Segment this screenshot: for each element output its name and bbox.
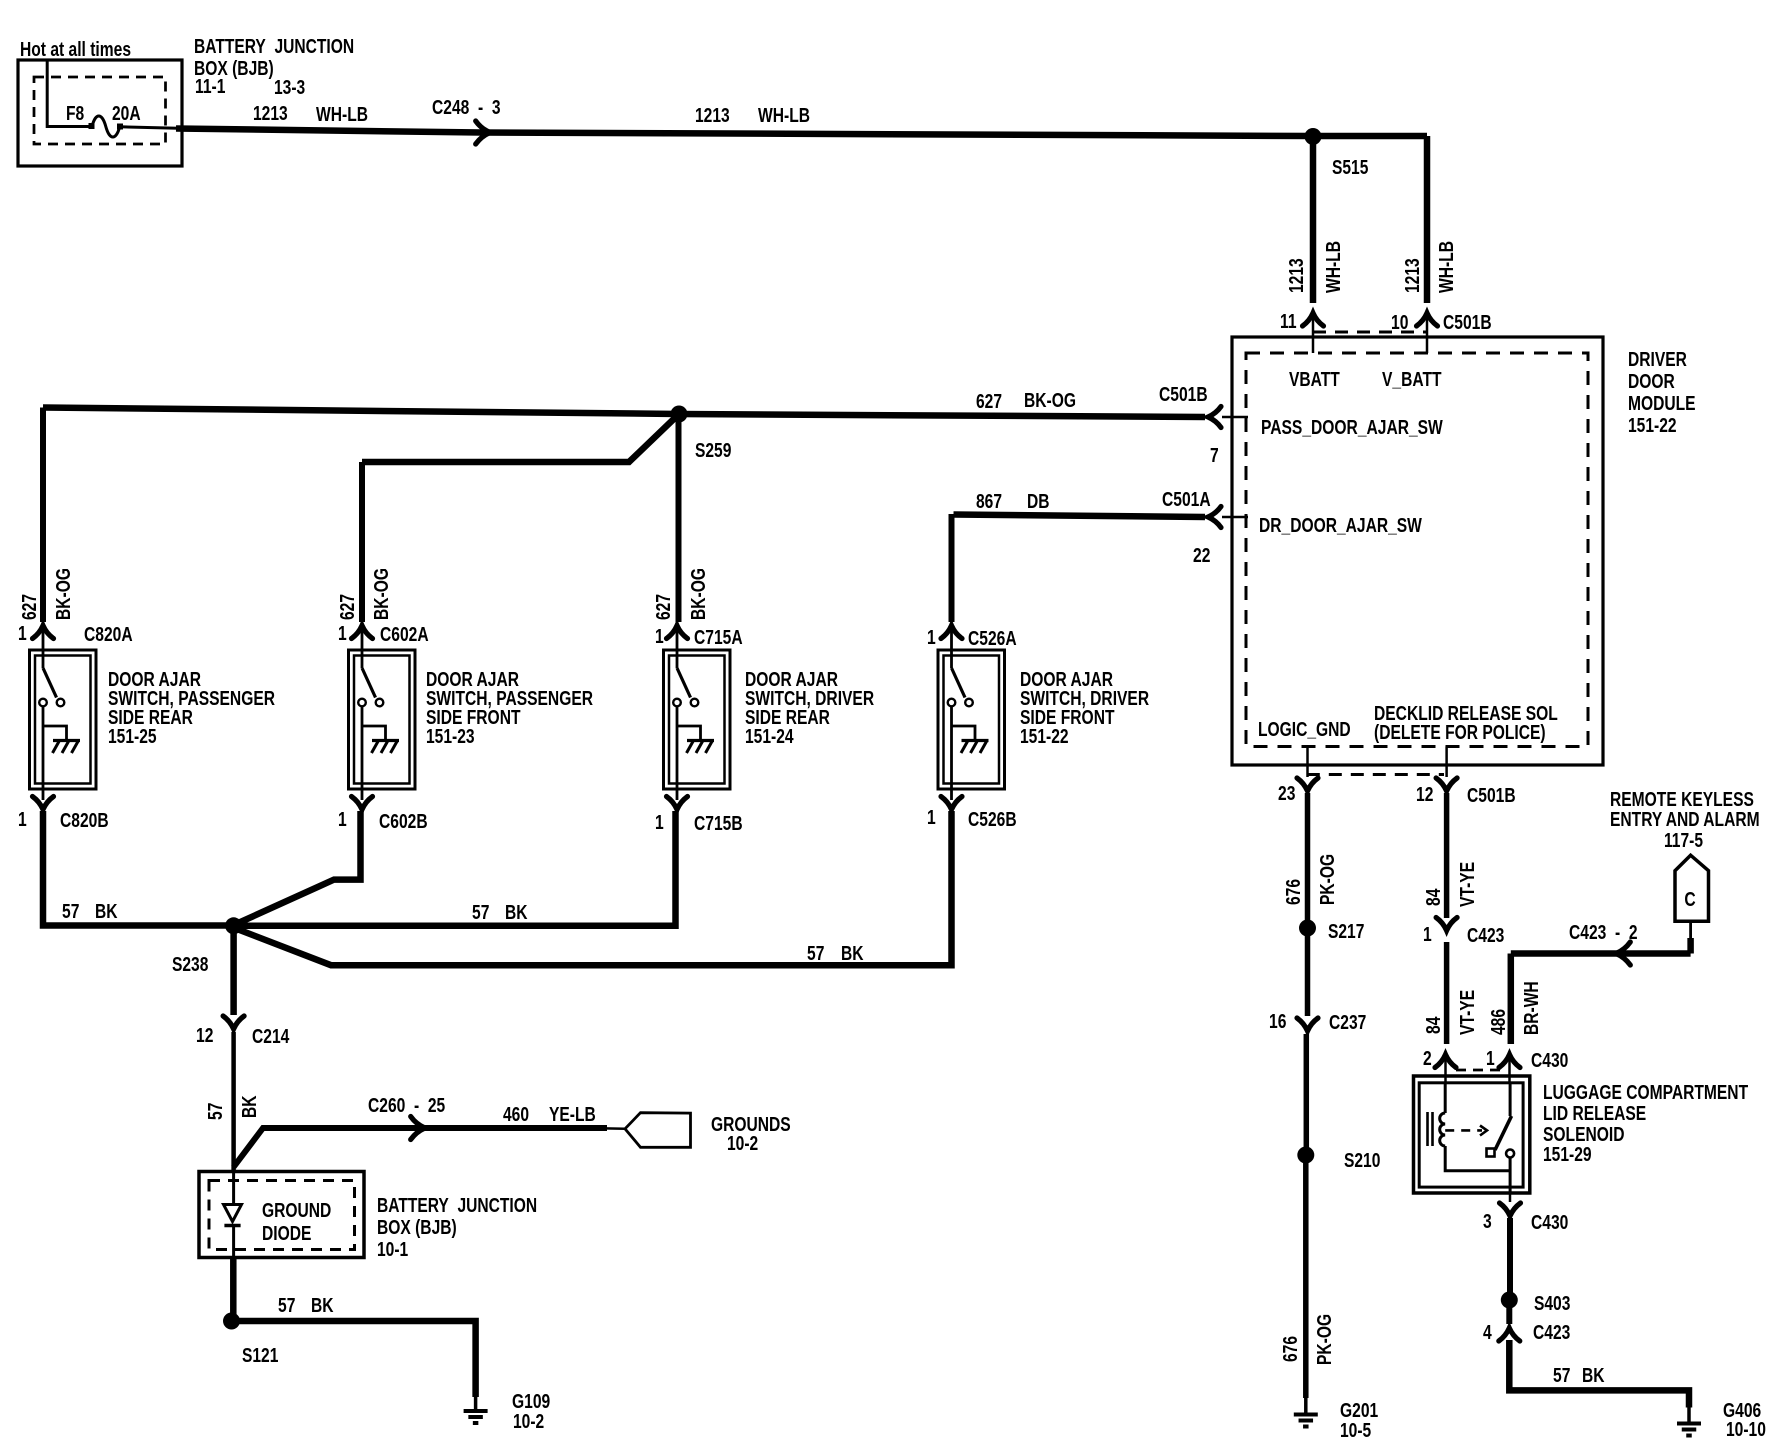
svg-text:BATTERY JUNCTION: BATTERY JUNCTION (377, 1195, 537, 1217)
svg-text:S217: S217 (1328, 921, 1364, 943)
svg-text:BK: BK (239, 1095, 261, 1118)
svg-text:57: 57 (1553, 1365, 1570, 1387)
svg-text:C602B: C602B (379, 811, 428, 833)
svg-text:84: 84 (1423, 888, 1445, 906)
svg-text:23: 23 (1278, 783, 1295, 805)
svg-text:C526B: C526B (968, 809, 1017, 831)
svg-text:BK: BK (841, 943, 864, 965)
svg-text:BK: BK (95, 901, 118, 923)
svg-text:1: 1 (927, 807, 936, 829)
svg-text:1: 1 (18, 809, 27, 831)
svg-text:VT-YE: VT-YE (1457, 862, 1479, 907)
svg-text:DR_DOOR_AJAR_SW: DR_DOOR_AJAR_SW (1259, 515, 1422, 537)
svg-text:C430: C430 (1531, 1212, 1568, 1234)
svg-text:BK: BK (311, 1295, 334, 1317)
svg-text:BK-OG: BK-OG (53, 568, 75, 620)
svg-text:LUGGAGE COMPARTMENT: LUGGAGE COMPARTMENT (1543, 1082, 1748, 1104)
svg-text:BK: BK (1582, 1365, 1605, 1387)
svg-text:S259: S259 (695, 440, 731, 462)
svg-text:10-2: 10-2 (727, 1133, 758, 1155)
svg-text:ENTRY AND ALARM: ENTRY AND ALARM (1610, 809, 1760, 831)
svg-text:WH-LB: WH-LB (1436, 241, 1458, 293)
svg-text:627: 627 (337, 594, 359, 620)
svg-text:2: 2 (1423, 1048, 1432, 1070)
svg-text:627: 627 (976, 391, 1002, 413)
svg-text:C501B: C501B (1467, 785, 1516, 807)
svg-text:C820A: C820A (84, 624, 133, 646)
svg-text:BR-WH: BR-WH (1521, 981, 1543, 1035)
svg-text:BATTERY JUNCTION: BATTERY JUNCTION (194, 36, 354, 58)
svg-text:57: 57 (278, 1295, 295, 1317)
svg-text:20A: 20A (112, 103, 141, 125)
svg-text:VBATT: VBATT (1289, 369, 1340, 391)
svg-text:DIODE: DIODE (262, 1223, 311, 1245)
svg-text:PASS_DOOR_AJAR_SW: PASS_DOOR_AJAR_SW (1261, 417, 1443, 439)
svg-text:1: 1 (655, 812, 664, 834)
svg-text:C: C (1684, 889, 1695, 911)
svg-text:C715A: C715A (694, 627, 743, 649)
svg-text:C214: C214 (252, 1026, 290, 1048)
svg-text:SOLENOID: SOLENOID (1543, 1124, 1625, 1146)
svg-text:676: 676 (1283, 879, 1305, 905)
svg-text:C423 - 2: C423 - 2 (1569, 922, 1638, 944)
svg-text:C260 - 25: C260 - 25 (368, 1095, 445, 1117)
svg-text:867: 867 (976, 491, 1002, 513)
svg-text:1: 1 (338, 623, 347, 645)
svg-text:151-22: 151-22 (1628, 415, 1677, 437)
svg-text:WH-LB: WH-LB (316, 104, 368, 126)
svg-text:57: 57 (807, 943, 824, 965)
svg-text:10-10: 10-10 (1726, 1419, 1766, 1441)
svg-text:1: 1 (338, 809, 347, 831)
svg-text:GROUND: GROUND (262, 1200, 331, 1222)
svg-text:Hot at all times: Hot at all times (20, 39, 131, 61)
svg-text:C820B: C820B (60, 810, 109, 832)
svg-text:C501A: C501A (1162, 489, 1211, 511)
svg-text:676: 676 (1280, 1336, 1302, 1362)
svg-text:WH-LB: WH-LB (758, 105, 810, 127)
svg-text:MODULE: MODULE (1628, 393, 1696, 415)
svg-text:PK-OG: PK-OG (1317, 854, 1339, 905)
svg-text:DOOR: DOOR (1628, 371, 1675, 393)
svg-text:BOX (BJB): BOX (BJB) (377, 1217, 457, 1239)
svg-text:C526A: C526A (968, 628, 1017, 650)
svg-text:3: 3 (1483, 1211, 1492, 1233)
svg-text:BK-OG: BK-OG (1024, 390, 1076, 412)
svg-text:PK-OG: PK-OG (1314, 1314, 1336, 1365)
svg-text:151-22: 151-22 (1020, 726, 1069, 748)
svg-text:1: 1 (1423, 924, 1432, 946)
svg-text:10-5: 10-5 (1340, 1420, 1371, 1442)
svg-text:13-3: 13-3 (274, 77, 305, 99)
svg-text:4: 4 (1483, 1322, 1492, 1344)
svg-text:REMOTE KEYLESS: REMOTE KEYLESS (1610, 789, 1754, 811)
svg-text:10: 10 (1391, 312, 1408, 334)
svg-text:627: 627 (19, 594, 41, 620)
svg-text:F8: F8 (66, 103, 84, 125)
svg-text:1213: 1213 (695, 105, 730, 127)
svg-text:57: 57 (62, 901, 79, 923)
svg-text:12: 12 (196, 1025, 213, 1047)
svg-text:S210: S210 (1344, 1150, 1380, 1172)
svg-text:C715B: C715B (694, 813, 743, 835)
svg-text:C248 - 3: C248 - 3 (432, 97, 501, 119)
svg-text:VT-YE: VT-YE (1457, 990, 1479, 1035)
svg-text:117-5: 117-5 (1664, 830, 1703, 852)
svg-text:S515: S515 (1332, 157, 1368, 179)
svg-text:16: 16 (1269, 1011, 1286, 1033)
svg-text:LID RELEASE: LID RELEASE (1543, 1103, 1646, 1125)
svg-text:151-29: 151-29 (1543, 1144, 1592, 1166)
svg-text:7: 7 (1210, 445, 1219, 467)
svg-text:C237: C237 (1329, 1012, 1366, 1034)
svg-text:57: 57 (472, 902, 489, 924)
svg-text:G109: G109 (512, 1391, 550, 1413)
svg-text:S403: S403 (1534, 1293, 1570, 1315)
svg-text:22: 22 (1193, 545, 1210, 567)
svg-text:WH-LB: WH-LB (1323, 241, 1345, 293)
svg-text:S121: S121 (242, 1345, 278, 1367)
svg-text:C423: C423 (1467, 925, 1504, 947)
svg-text:1: 1 (1486, 1048, 1495, 1070)
svg-text:1213: 1213 (1286, 258, 1308, 293)
svg-text:1213: 1213 (253, 103, 288, 125)
svg-text:C602A: C602A (380, 624, 429, 646)
svg-text:BK: BK (505, 902, 528, 924)
svg-text:BK-OG: BK-OG (688, 568, 710, 620)
svg-text:DB: DB (1027, 491, 1050, 513)
svg-text:G201: G201 (1340, 1400, 1378, 1422)
svg-text:BK-OG: BK-OG (371, 568, 393, 620)
svg-text:1: 1 (18, 623, 27, 645)
svg-text:DRIVER: DRIVER (1628, 349, 1687, 371)
svg-text:84: 84 (1423, 1016, 1445, 1034)
svg-text:S238: S238 (172, 954, 208, 976)
svg-text:460: 460 (503, 1104, 529, 1126)
svg-text:12: 12 (1416, 784, 1433, 806)
svg-text:1213: 1213 (1402, 258, 1424, 293)
svg-text:11-1: 11-1 (195, 76, 225, 98)
svg-text:151-25: 151-25 (108, 726, 157, 748)
svg-text:C501B: C501B (1159, 384, 1208, 406)
svg-text:C430: C430 (1531, 1050, 1568, 1072)
svg-text:V_BATT: V_BATT (1382, 369, 1442, 391)
svg-text:C501B: C501B (1443, 312, 1492, 334)
svg-text:151-23: 151-23 (426, 726, 475, 748)
svg-text:1: 1 (655, 626, 664, 648)
svg-text:627: 627 (653, 594, 675, 620)
svg-text:57: 57 (205, 1103, 227, 1120)
svg-text:1: 1 (927, 627, 936, 649)
svg-text:(DELETE FOR POLICE): (DELETE FOR POLICE) (1374, 722, 1546, 744)
svg-text:C423: C423 (1533, 1322, 1570, 1344)
svg-text:LOGIC_GND: LOGIC_GND (1258, 719, 1351, 741)
svg-text:YE-LB: YE-LB (549, 1104, 596, 1126)
svg-text:486: 486 (1488, 1009, 1510, 1035)
svg-text:11: 11 (1280, 311, 1297, 333)
svg-text:10-1: 10-1 (377, 1239, 408, 1261)
svg-text:151-24: 151-24 (745, 726, 794, 748)
svg-text:10-2: 10-2 (513, 1411, 544, 1433)
